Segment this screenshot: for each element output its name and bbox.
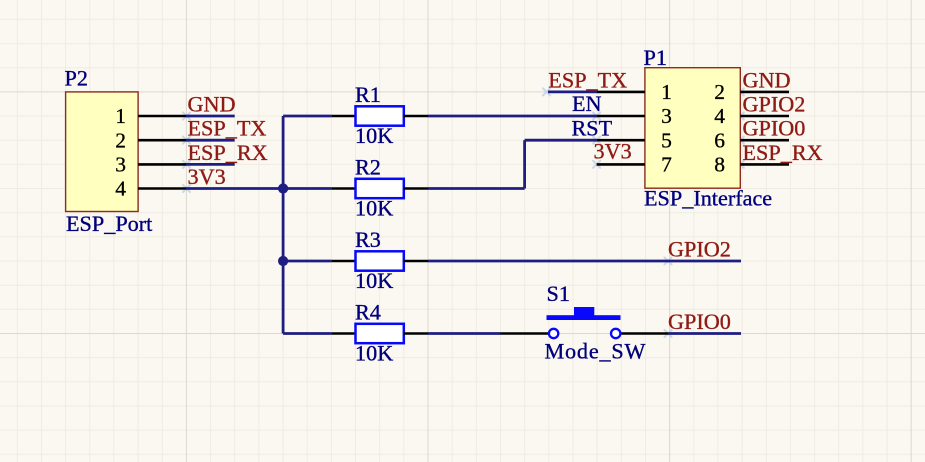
svg-text:5: 5 [661,128,672,152]
svg-text:Mode_SW: Mode_SW [545,339,647,364]
wire RST horizontal [525,139,597,142]
svg-text:R1: R1 [355,82,381,107]
wire net stub ESP_TX [186,139,235,142]
svg-text:10K: 10K [355,268,393,293]
wire R1 to EN [428,115,597,118]
resistor R1 [331,106,428,125]
svg-text:S1: S1 [547,281,570,306]
net label anchor markers [183,88,744,337]
svg-text:ESP_Port: ESP_Port [66,211,153,236]
switch S1 [501,307,669,338]
pin P1.5 [597,128,672,152]
pin P1.4 [714,104,789,128]
svg-text:2: 2 [714,80,725,104]
junction at bus/3V3 [278,183,288,193]
svg-text:7: 7 [661,153,672,177]
svg-text:3V3: 3V3 [594,139,632,164]
svg-text:P1: P1 [644,45,667,70]
svg-text:1: 1 [115,104,126,128]
svg-text:1: 1 [661,80,672,104]
pin P1.6 [714,128,789,152]
wire net stub ESP_RX [186,163,235,166]
connector P1 body [645,68,740,189]
svg-text:GND: GND [188,92,236,117]
wire bus to R1 [283,115,331,118]
svg-text:R3: R3 [355,227,381,252]
resistor R2 [331,179,428,198]
svg-text:GPIO2: GPIO2 [668,237,731,262]
svg-text:GPIO0: GPIO0 [743,116,806,141]
svg-text:GPIO2: GPIO2 [743,92,806,117]
wire ESP_TX stub [548,91,597,94]
svg-text:GND: GND [743,67,791,92]
svg-text:GPIO0: GPIO0 [668,309,731,334]
svg-text:R4: R4 [355,300,381,325]
svg-text:R2: R2 [355,155,381,180]
wire bus to R4 [283,332,331,335]
svg-text:ESP_RX: ESP_RX [188,140,268,165]
wire net stub GND [186,115,235,118]
connector P2 body [66,92,139,212]
wire RST vertical [523,140,526,188]
junction at bus/R3 [278,256,288,266]
pin P1.7 [597,153,673,177]
svg-text:ESP_TX: ESP_TX [188,116,267,141]
wire bus to R3 [283,260,331,263]
resistor R3 [331,251,428,270]
svg-text:8: 8 [714,153,725,177]
svg-text:4: 4 [115,177,126,201]
svg-text:3: 3 [661,104,672,128]
svg-text:EN: EN [572,91,602,116]
pin P2.3 [115,153,186,177]
svg-text:10K: 10K [355,196,393,221]
svg-text:ESP_Interface: ESP_Interface [644,186,772,211]
svg-text:6: 6 [714,128,725,152]
wire vertical bus [282,116,285,334]
svg-text:ESP_TX: ESP_TX [548,67,627,92]
pin P1.1 [597,80,672,104]
pin P2.4 [115,177,186,201]
svg-text:3V3: 3V3 [188,164,226,189]
pin P1.3 [597,104,672,128]
wire bus to R2 [283,187,331,190]
svg-text:ESP_RX: ESP_RX [743,140,823,165]
pin P2.2 [115,128,186,152]
pin P2.1 [115,104,186,128]
pin P1.2 [714,80,789,104]
wire R2 right [428,187,525,190]
svg-text:3: 3 [115,153,126,177]
pin P1.8 [714,153,789,177]
resistor R4 [331,324,428,343]
wire S1 to GPIO0 [669,332,741,335]
svg-text:2: 2 [115,128,126,152]
svg-text:10K: 10K [355,341,393,366]
svg-text:P2: P2 [65,66,88,91]
wire R3 to GPIO2 [428,260,741,263]
wire 3V3 from P2.4 to bus [186,187,283,190]
svg-text:RST: RST [572,116,613,141]
svg-text:4: 4 [714,104,725,128]
svg-text:10K: 10K [355,123,393,148]
wire R4 to S1 [428,332,501,335]
